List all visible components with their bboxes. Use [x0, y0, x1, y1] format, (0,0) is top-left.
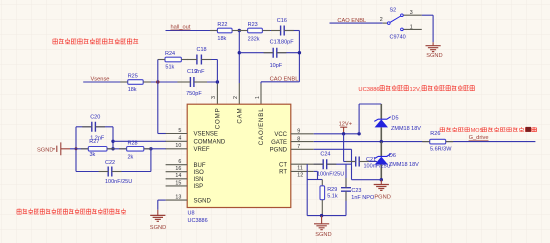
svg-text:R24: R24 — [165, 51, 175, 57]
svg-text:R22: R22 — [217, 22, 227, 28]
svg-text:UC3886: UC3886 — [188, 218, 208, 224]
diode D6 — [374, 153, 419, 168]
resistor R23 — [248, 22, 263, 42]
svg-text:7: 7 — [297, 144, 300, 150]
pin number 1 — [410, 24, 413, 30]
svg-text:2nF: 2nF — [195, 69, 205, 75]
wire 12V down — [343, 134, 345, 162]
svg-text:12V,: 12V, — [410, 87, 422, 93]
pin number 2 — [380, 17, 383, 23]
capacitor C20 — [90, 115, 105, 142]
pin name GATE — [271, 140, 287, 146]
pin name CAO/ENBL — [258, 108, 265, 146]
wire R29 top link — [307, 179, 322, 181]
pin 10 VREF stub — [166, 148, 188, 150]
pin 1 stub — [260, 84, 262, 105]
junction gate-diode — [380, 140, 383, 143]
wire PGND rail — [352, 179, 382, 181]
capacitor C18 pins — [187, 59, 211, 61]
svg-text:D5: D5 — [392, 116, 399, 122]
svg-text:UC3886: UC3886 — [358, 87, 379, 93]
wire VREF pin10 — [151, 148, 166, 150]
capacitor C18 — [197, 47, 207, 64]
U8 part type — [188, 218, 208, 224]
pin number 15 — [175, 180, 181, 186]
svg-text:R25: R25 — [128, 74, 138, 80]
wire C23 bottom — [345, 191, 347, 215]
wire CAM vertical — [238, 31, 240, 84]
svg-text:C18: C18 — [197, 47, 207, 53]
pin number 11 — [297, 165, 303, 171]
wire pin7 vertical — [351, 149, 353, 179]
pin number 13 — [175, 195, 181, 201]
svg-text:C22: C22 — [105, 160, 115, 166]
pin name SGND — [194, 198, 212, 204]
ground SGND top right — [426, 42, 443, 59]
wire SGND vertical — [157, 200, 159, 210]
svg-text:51k: 51k — [165, 64, 174, 70]
junction R22-R23 — [238, 29, 241, 32]
pin 3 stub S2 — [404, 14, 422, 16]
resistor R28 pins — [119, 148, 151, 150]
pin name CT — [279, 162, 287, 168]
svg-text:1nF NPO: 1nF NPO — [351, 195, 375, 201]
wire C18 right — [201, 59, 217, 61]
wire bottom SGND rail — [307, 215, 346, 217]
svg-text:COMP: COMP — [215, 108, 222, 130]
svg-text:13: 13 — [175, 195, 181, 201]
svg-text:hall_out: hall_out — [171, 25, 191, 31]
svg-text:Vsense: Vsense — [91, 76, 110, 82]
pin 1 stub S2 — [404, 28, 422, 30]
wire node A up — [157, 60, 159, 83]
wire pin1 vertical — [260, 82, 262, 84]
annotation MOS note — [440, 127, 537, 134]
junction C17 right — [298, 51, 301, 54]
pin 11 CT stub — [291, 163, 314, 165]
net label hall_out — [171, 25, 191, 31]
junction pin4 tap — [111, 140, 114, 143]
svg-text:100nF/25U: 100nF/25U — [317, 171, 344, 177]
svg-text:100nF/25U: 100nF/25U — [364, 164, 391, 170]
junction 12V+ — [342, 132, 345, 135]
svg-text:180pF: 180pF — [278, 40, 294, 46]
power port SGND left — [37, 142, 70, 155]
capacitor C16 — [277, 18, 294, 46]
resistor R26 pins — [422, 141, 453, 143]
pin 5 VSENSE stub — [166, 133, 188, 135]
net label CAO/ENBL feedback — [270, 76, 299, 82]
wire SGND pin13 — [158, 199, 166, 201]
pin 2 stub — [238, 83, 240, 104]
svg-text:C21: C21 — [366, 157, 376, 163]
pin number 3 — [211, 96, 217, 99]
svg-text:U8: U8 — [188, 210, 195, 216]
svg-text:5: 5 — [178, 128, 181, 134]
capacitor C17 pins — [264, 52, 287, 54]
pin number 4 — [178, 136, 181, 142]
wire VSENSE pin5 — [158, 133, 166, 135]
svg-text:SGND: SGND — [37, 148, 53, 154]
wire pin3 vertical — [216, 82, 218, 84]
svg-text:CAO ENBL: CAO ENBL — [270, 76, 299, 82]
pin name BUF — [194, 163, 206, 169]
pin number 3 — [410, 10, 413, 16]
resistor R24 — [165, 51, 181, 70]
svg-text:C20: C20 — [90, 115, 100, 121]
junction mid right — [149, 147, 152, 150]
svg-text:15: 15 — [175, 180, 181, 186]
wire PGND pin7 — [314, 148, 352, 150]
pin name CAM — [237, 108, 244, 124]
wire G_drive — [446, 141, 536, 143]
wire node B up — [216, 60, 218, 83]
pin name PGND — [270, 148, 288, 154]
junction node A — [156, 80, 159, 83]
resistor R28 — [127, 140, 144, 160]
pin number 1 — [255, 96, 261, 99]
wire C16 right — [284, 30, 299, 32]
junction C17 left — [238, 51, 241, 54]
resistor R29 lead top — [321, 180, 323, 186]
svg-text:CAO/ENBL: CAO/ENBL — [258, 108, 265, 146]
svg-text:3k: 3k — [90, 152, 96, 158]
svg-text:VCC: VCC — [274, 132, 287, 138]
capacitor C22 pins — [99, 171, 122, 173]
diode D5 — [374, 116, 421, 132]
pin 7 PGND stub — [291, 148, 314, 150]
pin 6 BUF stub — [166, 164, 188, 166]
svg-text:1: 1 — [255, 96, 261, 99]
svg-text:2: 2 — [380, 17, 383, 23]
wire C21 right — [359, 161, 377, 163]
svg-text:10: 10 — [175, 143, 181, 149]
svg-text:100nF/25U: 100nF/25U — [105, 179, 132, 185]
svg-text:C17: C17 — [270, 40, 280, 46]
annotation top-left — [53, 38, 138, 44]
pin 13 SGND stub — [166, 199, 188, 201]
pin name ISP — [194, 184, 204, 190]
wire C20 right vertical — [112, 127, 114, 149]
svg-text:D6: D6 — [389, 153, 396, 159]
svg-text:3: 3 — [211, 96, 217, 99]
svg-text:SGND: SGND — [315, 232, 331, 238]
svg-text:G_drive: G_drive — [469, 135, 489, 141]
svg-text:10pF: 10pF — [270, 63, 283, 69]
annotation 12V note — [358, 85, 474, 93]
svg-text:8: 8 — [297, 136, 300, 142]
capacitor C20 pins — [82, 126, 105, 128]
pin name COMP — [215, 108, 222, 130]
svg-text:PGND: PGND — [374, 194, 390, 200]
svg-text:VSENSE: VSENSE — [194, 132, 218, 138]
wire VCC up — [358, 104, 360, 134]
svg-text:MOS: MOS — [471, 128, 484, 134]
svg-text:ZMM18 18V: ZMM18 18V — [389, 162, 419, 168]
svg-text:14: 14 — [175, 173, 181, 179]
pin 15 ISP stub — [166, 185, 188, 187]
resistor R25 pins — [120, 81, 151, 83]
pin number 12 — [297, 173, 303, 179]
pin number 16 — [175, 166, 181, 172]
wire hall_out — [166, 30, 281, 32]
junction node B — [216, 80, 219, 83]
net label CAO ENBL — [337, 18, 366, 24]
diode D6 lead bottom — [380, 165, 382, 180]
svg-text:C23: C23 — [351, 188, 361, 194]
pin 8 GATE stub — [291, 141, 314, 143]
svg-text:2k: 2k — [128, 154, 134, 160]
pin number 14 — [175, 173, 181, 179]
wire CAO right vertical — [298, 31, 300, 82]
wire R24 row left — [158, 59, 197, 61]
junction VCC corner — [357, 132, 360, 135]
svg-text:VREF: VREF — [194, 147, 210, 153]
pin name ISN — [194, 177, 204, 183]
ground PGND — [374, 180, 391, 201]
svg-text:S2: S2 — [390, 7, 397, 13]
svg-text:C24: C24 — [320, 151, 330, 157]
pin 3 stub — [216, 84, 218, 105]
resistor R24 pins — [158, 59, 188, 61]
annotation bottom-left — [17, 209, 126, 215]
resistor R29 lead bottom — [321, 200, 323, 216]
capacitor C17 — [270, 40, 283, 69]
svg-text:R29: R29 — [327, 187, 337, 193]
svg-text:R26: R26 — [430, 131, 440, 137]
diode D6 lead top — [380, 142, 382, 157]
pin number 8 — [297, 136, 300, 142]
pin number 5 — [178, 128, 181, 134]
pin 4 COMMAND stub — [166, 140, 188, 142]
capacitor C22 — [105, 160, 132, 185]
wire C17 row right — [277, 52, 300, 54]
svg-text:CAO ENBL: CAO ENBL — [337, 18, 366, 24]
capacitor C23 — [341, 188, 375, 201]
svg-text:PGND: PGND — [270, 148, 288, 154]
wire VCC rail — [314, 133, 359, 135]
wire C19 right — [194, 81, 218, 83]
wire mid row — [70, 148, 151, 150]
wire C24 right — [327, 163, 352, 165]
wire CAO feedback — [261, 81, 299, 83]
wire bottom right vertical — [150, 149, 152, 172]
svg-text:RT: RT — [279, 170, 287, 176]
switch S2 — [388, 7, 406, 40]
ground SGND under IC — [150, 210, 166, 231]
svg-text:R28: R28 — [128, 140, 138, 146]
svg-text:ISO: ISO — [194, 170, 205, 176]
pin name COMMAND — [194, 140, 226, 146]
pin number 6 — [178, 159, 181, 165]
svg-text:5.6R/3W: 5.6R/3W — [430, 146, 452, 152]
net label G_drive — [469, 135, 489, 141]
wire C21 left — [344, 161, 356, 163]
resistor R26 — [430, 131, 453, 152]
junction mid center — [111, 147, 114, 150]
pin 16 ISO stub — [166, 171, 188, 173]
resistor R27 pins — [81, 148, 115, 150]
capacitor C24 pins — [314, 163, 337, 165]
wire S2 to ground — [422, 15, 433, 42]
pin 14 ISN stub — [166, 178, 188, 180]
wire COMMAND pin4 — [113, 140, 166, 142]
svg-text:ISP: ISP — [194, 184, 204, 190]
svg-text:SGND: SGND — [426, 53, 442, 59]
wire GATE rail — [314, 141, 430, 143]
pin 2 stub S2 — [383, 22, 388, 24]
wire left vertical — [75, 127, 77, 172]
svg-text:CAM: CAM — [237, 108, 244, 124]
svg-text:2: 2 — [233, 96, 239, 99]
op-amp U1 body UC3886 — [187, 104, 291, 207]
svg-text:18k: 18k — [128, 87, 137, 93]
svg-text:4: 4 — [178, 136, 181, 142]
svg-text:16: 16 — [175, 166, 181, 172]
pin name RT — [279, 170, 287, 176]
diode D5 lead top — [380, 104, 382, 119]
net label Vsense — [91, 76, 110, 82]
resistor R22 pins — [210, 30, 239, 32]
pin number 7 — [297, 144, 300, 150]
svg-text:R27: R27 — [89, 139, 99, 145]
resistor R29 — [320, 186, 338, 200]
wire bottom row — [76, 171, 151, 173]
svg-text:9: 9 — [297, 129, 300, 135]
pin 12 RT stub — [291, 170, 314, 172]
capacitor C19 — [186, 69, 205, 97]
wire Vsense — [83, 81, 190, 83]
resistor R25 — [128, 74, 144, 94]
resistor R22 — [217, 22, 232, 42]
capacitor C21 pins — [346, 161, 369, 163]
svg-text:1: 1 — [410, 24, 413, 30]
pin name VSENSE — [194, 132, 218, 138]
wire top rail — [359, 103, 381, 105]
wire CT pin11 — [314, 163, 324, 165]
resistor R27 — [88, 139, 107, 158]
svg-text:5.1k: 5.1k — [327, 194, 338, 200]
wire C20 row — [76, 126, 113, 128]
pin number 2 — [233, 96, 239, 99]
wire RT down — [317, 171, 319, 179]
svg-text:18k: 18k — [217, 36, 226, 42]
junction PGND node — [380, 178, 383, 181]
wire RT pin12 — [314, 170, 318, 172]
svg-text:BUF: BUF — [194, 163, 206, 169]
svg-text:CT: CT — [279, 162, 287, 168]
svg-text:750pF: 750pF — [186, 91, 202, 97]
pin number 10 — [175, 143, 181, 149]
pin 9 VCC stub — [291, 133, 314, 135]
diode D5 lead bottom — [380, 127, 382, 141]
svg-text:12V+: 12V+ — [339, 121, 353, 127]
svg-text:12: 12 — [297, 173, 303, 179]
svg-text:GATE: GATE — [271, 140, 287, 146]
junction mid left — [75, 147, 78, 150]
pin name ISO — [194, 170, 205, 176]
svg-text:6: 6 — [178, 159, 181, 165]
wire C24-C23 vertical — [345, 164, 347, 188]
capacitor C19 pins — [177, 81, 207, 83]
svg-text:3: 3 — [410, 10, 413, 16]
pin name VCC — [274, 132, 287, 138]
wire CAO ENBL — [330, 22, 383, 24]
capacitor C24 — [317, 151, 344, 177]
svg-text:SGND: SGND — [194, 198, 212, 204]
svg-text:ISN: ISN — [194, 177, 204, 183]
capacitor C16 pins — [271, 30, 294, 32]
svg-text:SGND: SGND — [150, 225, 166, 231]
wire VSENSE vertical — [157, 82, 159, 134]
power port 12V+ — [339, 121, 353, 133]
U8 designator — [188, 210, 195, 216]
svg-text:11: 11 — [297, 165, 303, 171]
svg-text:C9740: C9740 — [390, 35, 406, 41]
svg-text:COMMAND: COMMAND — [194, 140, 226, 146]
wire CT down vertical — [306, 164, 308, 215]
svg-text:C16: C16 — [277, 18, 287, 24]
svg-text:ZMM18 18V: ZMM18 18V — [391, 126, 421, 132]
ground SGND bottom — [314, 216, 332, 238]
resistor R23 pins — [239, 30, 270, 32]
capacitor C21 — [356, 157, 391, 170]
pin name VREF — [194, 147, 210, 153]
svg-text:R23: R23 — [248, 22, 258, 28]
junction SGND rail — [320, 214, 323, 217]
pin number 9 — [297, 129, 300, 135]
wire C17 row left — [239, 52, 273, 54]
capacitor C23 pins — [345, 178, 347, 201]
svg-text:232k: 232k — [248, 37, 260, 43]
